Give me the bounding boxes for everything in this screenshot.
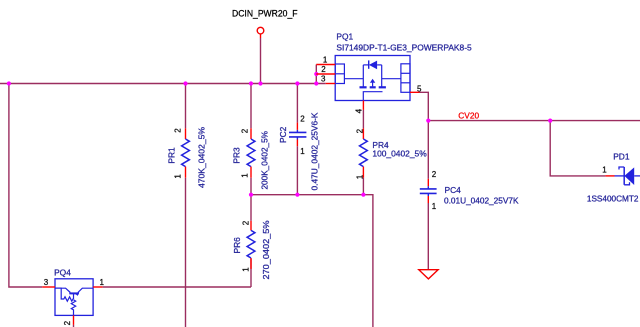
svg-text:2: 2 [241,220,250,225]
capacitor PC4 [420,170,519,211]
svg-text:PD1: PD1 [613,151,630,161]
wire net CV20 horizontal [428,120,640,122]
wire PQ1 pin5 corner down to CV20 [420,92,429,120]
svg-text:2: 2 [355,128,364,133]
svg-text:100_0402_5%: 100_0402_5% [372,148,427,158]
junction CV20/PD1 branch [548,119,552,123]
wire PC4 column upper [427,121,429,179]
junction PR1/main rail [183,81,187,85]
junction at left rail corner [7,81,11,85]
wire PQ4 pin1 to PR6 bottom [103,286,251,288]
svg-text:1: 1 [602,166,607,175]
svg-text:3: 3 [321,75,326,84]
svg-text:3: 3 [44,278,49,287]
svg-text:DCIN_PWR20_F: DCIN_PWR20_F [232,8,298,18]
wire PC2 column upper [296,84,298,123]
svg-text:1SS400CMT2: 1SS400CMT2 [587,193,639,203]
junction PR3/main rail [249,81,253,85]
resistor PR1 [167,126,207,188]
wire PR3 column lower [250,178,252,195]
wire main horizontal rail y=83.5 [0,83,326,85]
junction PR4 bottom rail [361,193,365,197]
pin 1 of PQ1 [316,64,335,66]
junction PQ1 pin2 link [314,72,318,76]
svg-text:PC2: PC2 [278,126,288,143]
svg-text:270_0402_5%: 270_0402_5% [261,220,271,280]
transistor PQ4 (digital transistor) [42,267,104,327]
junction PQ1 pin3 link/main rail [314,81,318,85]
svg-text:2: 2 [240,128,249,133]
junction DCIN/main rail [258,81,262,85]
node DCIN_PWR20_F [232,8,298,34]
pin 5 of PQ1 [410,91,420,93]
wire PR1 column upper [185,84,187,129]
svg-text:1: 1 [241,267,250,272]
resistor PR3 [232,128,270,189]
svg-text:2: 2 [432,170,437,179]
wire PC4 column lower to ground [427,203,429,270]
svg-text:1: 1 [355,174,364,179]
svg-text:1: 1 [100,278,105,287]
svg-text:0.01U_0402_25V7K: 0.01U_0402_25V7K [444,196,519,206]
svg-text:1: 1 [323,55,328,64]
svg-text:0.47U_0402_25V6-K: 0.47U_0402_25V6-K [310,112,320,190]
wire PQ1 pin4 to PR4 [362,110,364,128]
junction PC2/main rail [295,81,299,85]
pin 3 of PQ4 [42,286,55,288]
wire DCIN vertical drop [260,38,262,84]
pin 1 of PQ4 [93,286,103,288]
svg-text:1: 1 [432,202,437,211]
svg-text:PR1: PR1 [167,147,177,164]
wire PR1 column lower to bottom edge [185,178,187,327]
svg-text:PR6: PR6 [232,237,242,254]
svg-text:1: 1 [174,174,183,179]
capacitor PC2 [278,112,320,190]
junction PR3-PR6 bottom rail [249,193,253,197]
wire PR3 column upper [250,84,252,129]
pin 3 of PQ1 [326,83,336,85]
wire PR6 column upper [250,195,252,221]
wire PC2 column lower [296,146,298,195]
svg-text:SI7149DP-T1-GE3_POWERPAK8-5: SI7149DP-T1-GE3_POWERPAK8-5 [336,42,472,52]
wire bottom horizontal y=194.7 with drop to bottom edge [251,195,373,327]
svg-text:PQ1: PQ1 [336,31,353,41]
ground [419,270,438,279]
svg-text:2: 2 [174,128,183,133]
svg-text:2: 2 [300,114,305,123]
transistor PQ1 (dual MOSFET POWERPAK) [316,31,472,113]
svg-text:PR3: PR3 [232,147,242,164]
svg-text:PC4: PC4 [445,185,462,195]
wire PR4 bottom [362,178,364,195]
svg-text:2: 2 [321,65,326,74]
svg-text:CV20: CV20 [458,110,479,120]
wire left vertical + bottom-left horizontal to PQ4 pin3 [9,84,42,288]
pin 4 of PQ1 [362,101,364,110]
pin 2 of PQ1 [316,73,335,75]
svg-text:4: 4 [355,108,364,113]
svg-text:2: 2 [63,320,72,325]
svg-text:1: 1 [240,173,249,178]
wire CV20 branch down and right to PD1 [550,121,605,176]
svg-text:470K_0402_5%: 470K_0402_5% [196,126,206,188]
junction CV20/PC4 [426,119,430,123]
wire PR6 column lower [250,258,252,287]
svg-text:1: 1 [300,147,305,156]
svg-text:5: 5 [417,84,422,93]
pin 1 of PD1 [605,175,614,177]
diode PD1 [587,151,640,203]
junction PC2 bottom rail [295,193,299,197]
svg-text:PQ4: PQ4 [54,267,71,277]
resistor PR4 [355,128,427,179]
svg-text:200K_0402_5%: 200K_0402_5% [260,130,270,189]
pin 2 of PQ4 [73,315,75,325]
wire PQ1 pins 1-2-3 vertical link [315,65,317,84]
resistor PR6 [232,220,271,280]
